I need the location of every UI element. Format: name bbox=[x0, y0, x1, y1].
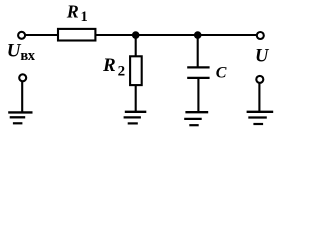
ground: bottom-left bbox=[8, 112, 32, 123]
terminal: output U (top-right open circle) bbox=[257, 32, 264, 39]
wire: R2 to ground bbox=[135, 85, 137, 111]
terminal: input return (bottom-left open circle) bbox=[19, 74, 26, 81]
svg-text:C: C bbox=[216, 65, 227, 82]
terminal: input Uвх (top-left open circle) bbox=[18, 32, 25, 39]
ground: under C bbox=[184, 112, 208, 125]
wire: input terminal to R1 bbox=[25, 34, 58, 36]
label C bbox=[216, 65, 227, 82]
wire: C to ground bbox=[197, 78, 199, 112]
label U bbox=[255, 47, 270, 67]
wire: node A down to R2 bbox=[135, 35, 137, 57]
resistor R1 bbox=[58, 29, 95, 41]
terminal: output return (bottom-right open circle) bbox=[256, 76, 263, 83]
svg-text:R: R bbox=[66, 2, 79, 22]
svg-text:1: 1 bbox=[81, 9, 88, 25]
svg-text:U: U bbox=[255, 47, 270, 67]
svg-text:вх: вх bbox=[20, 48, 35, 64]
label R2 bbox=[102, 55, 125, 80]
ground: bottom-right bbox=[247, 112, 274, 124]
svg-text:2: 2 bbox=[118, 64, 126, 80]
wire: bottom-left terminal to ground bbox=[21, 81, 23, 111]
junction: node B (C tap) bbox=[194, 31, 202, 39]
resistor R2 bbox=[130, 56, 142, 85]
wire: node B down to C bbox=[197, 35, 199, 67]
ground: under R2 bbox=[124, 112, 147, 124]
label R1 bbox=[66, 2, 88, 25]
svg-text:R: R bbox=[102, 55, 116, 76]
junction: node A (R1/R2) bbox=[132, 31, 140, 39]
capacitor C bbox=[187, 67, 209, 78]
wire: bottom-right terminal to ground bbox=[258, 83, 260, 112]
wire: R1 to output terminal (top rail) bbox=[95, 34, 256, 36]
label Uвх bbox=[7, 41, 36, 64]
